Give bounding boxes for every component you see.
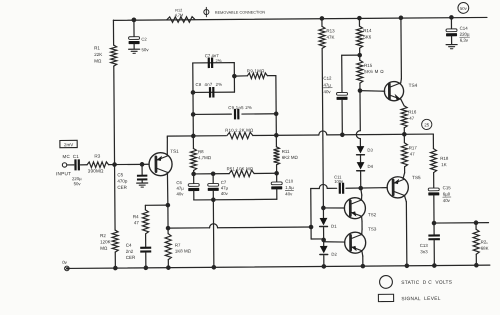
symbol removable connection bbox=[204, 7, 209, 16]
wire mid rail center bbox=[253, 134, 319, 137]
svg-text:R1: R1 bbox=[94, 45, 100, 50]
wire hop over diode column bbox=[319, 131, 327, 135]
svg-text:2n2: 2n2 bbox=[126, 249, 134, 254]
transistor TS1 bbox=[149, 153, 172, 176]
label R14 5K6 bbox=[363, 28, 372, 39]
node caps drop ground junction bbox=[212, 265, 217, 270]
label C15 6u8 40v bbox=[443, 185, 452, 203]
wire C14 to ground bbox=[451, 36, 453, 44]
svg-text:TS1: TS1 bbox=[170, 149, 179, 154]
svg-text:MΩ: MΩ bbox=[94, 58, 102, 63]
wire left bias column middle bbox=[114, 66, 115, 230]
svg-text:R7: R7 bbox=[175, 243, 181, 248]
wire D3 to D4 bbox=[359, 156, 361, 163]
svg-text:R4: R4 bbox=[133, 214, 139, 219]
node R7 top junction bbox=[166, 226, 171, 231]
label C9 1n5 2% bbox=[228, 105, 252, 110]
svg-text:22K: 22K bbox=[94, 52, 102, 57]
svg-text:2mV: 2mV bbox=[64, 142, 73, 147]
capacitor C8 bbox=[209, 87, 215, 98]
node TS2 base junction bbox=[321, 206, 326, 211]
node TS1 base junction bbox=[140, 162, 145, 167]
svg-text:470p: 470p bbox=[117, 179, 128, 184]
wire left bias column lower bbox=[114, 252, 116, 268]
svg-text:6µ8: 6µ8 bbox=[443, 192, 451, 197]
node R8 bottom junction bbox=[191, 172, 196, 177]
resistor R1 bbox=[111, 45, 117, 66]
svg-text:R16: R16 bbox=[408, 109, 417, 114]
resistor R2 bbox=[112, 230, 118, 252]
svg-text:47: 47 bbox=[410, 152, 415, 157]
svg-text:47µ: 47µ bbox=[323, 82, 331, 87]
wire feedback loop top bbox=[193, 62, 234, 64]
label R3 bbox=[94, 154, 100, 159]
resistor R3 bbox=[87, 162, 109, 168]
svg-text:C9 1n5 2%: C9 1n5 2% bbox=[228, 105, 252, 110]
label SIGNAL LEVEL bbox=[401, 296, 440, 302]
label R8 4.7M bbox=[198, 149, 212, 160]
wire diode bias column upper bbox=[359, 91, 361, 131]
wire feedback right rail bbox=[275, 76, 277, 136]
svg-text:D2: D2 bbox=[331, 252, 337, 257]
wire R9 to right rail bbox=[267, 75, 275, 77]
ground below C14 bbox=[446, 45, 457, 49]
label R16 47 bbox=[408, 109, 417, 120]
svg-text:40v: 40v bbox=[221, 191, 229, 196]
wire R9 lead left bbox=[234, 75, 247, 77]
wire R11 bottom stub bbox=[276, 165, 278, 173]
svg-text:50v: 50v bbox=[460, 6, 468, 11]
svg-text:47µ: 47µ bbox=[176, 186, 184, 191]
label R17 47 bbox=[409, 145, 418, 156]
node C4 ground junction bbox=[144, 266, 149, 271]
svg-text:40v: 40v bbox=[285, 191, 293, 196]
label MC C1 bbox=[62, 154, 79, 159]
label C4 2n2 CER bbox=[126, 243, 136, 260]
svg-text:TS5: TS5 bbox=[412, 175, 421, 180]
ground below C2 bbox=[129, 49, 140, 53]
wire TS5 base lead bbox=[346, 187, 387, 190]
label R21 68K bbox=[481, 239, 489, 250]
node R7 ground junction bbox=[166, 265, 171, 270]
capacitor C10 bbox=[271, 173, 282, 199]
wire TS4 collector to rail bbox=[400, 18, 401, 83]
node R9 tap junction bbox=[232, 74, 237, 79]
svg-text:2%: 2% bbox=[216, 58, 222, 63]
wire 173 line left segment bbox=[194, 173, 213, 175]
wire D1 top lead bbox=[322, 208, 324, 218]
label R13 47K bbox=[326, 28, 335, 39]
svg-text:6K2 MΩ: 6K2 MΩ bbox=[282, 155, 299, 160]
svg-text:40v: 40v bbox=[323, 89, 331, 94]
resistor R15 bbox=[357, 60, 363, 83]
wire R21 top stub bbox=[475, 223, 477, 229]
capacitor C15 bbox=[428, 188, 439, 195]
symbol voltage circle 25 bbox=[422, 119, 432, 129]
node C9 left junction bbox=[191, 112, 196, 117]
capacitor C14 bbox=[446, 29, 457, 36]
wire TS5 emitter down bbox=[405, 196, 407, 266]
diode D1 bbox=[320, 218, 328, 227]
svg-text:R9 1MΩ: R9 1MΩ bbox=[247, 68, 265, 73]
wire C12 top lead bbox=[342, 55, 360, 92]
node 2mV signal-level box bbox=[60, 140, 77, 147]
ground below C5 bbox=[137, 183, 148, 187]
wire R4 to C4 bbox=[145, 234, 147, 247]
node feedback left junction bbox=[191, 134, 196, 139]
wire R13 top stub bbox=[321, 18, 323, 26]
label R4 47 bbox=[133, 214, 140, 225]
wire C13 to ground rail bbox=[433, 240, 435, 265]
node D4 TS2 junction bbox=[358, 186, 363, 191]
wire D1 to node bbox=[323, 228, 325, 246]
capacitor C12 bbox=[336, 92, 347, 99]
label TS4 bbox=[409, 83, 418, 88]
resistor R9 bbox=[247, 73, 267, 79]
wire R4 top stub bbox=[144, 205, 146, 209]
wire 173 line to R51 bbox=[213, 173, 229, 175]
svg-text:6,3v: 6,3v bbox=[460, 38, 469, 43]
wire bypass vertical bbox=[310, 189, 312, 239]
svg-text:R2₁: R2₁ bbox=[481, 239, 489, 244]
resistor R51 bbox=[229, 170, 254, 177]
svg-text:CER: CER bbox=[126, 255, 136, 260]
label R1 22K bbox=[94, 45, 102, 63]
wire D4 to TS5 base node bbox=[360, 172, 362, 189]
label C1 value 220u 50v bbox=[72, 176, 82, 186]
svg-text:47µ: 47µ bbox=[221, 185, 229, 190]
transistor TS5 bbox=[387, 177, 408, 198]
node TS4 collector rail junction bbox=[399, 15, 404, 20]
resistor R16 bbox=[401, 106, 407, 128]
wire R51 to R11 bottom bbox=[254, 172, 276, 174]
label R12 4.7M bbox=[175, 9, 184, 18]
svg-text:R51 10K MΩ: R51 10K MΩ bbox=[227, 166, 254, 171]
resistor R14 bbox=[356, 26, 362, 48]
label R51 10K bbox=[227, 166, 254, 171]
svg-text:R17: R17 bbox=[409, 145, 418, 150]
resistor R4 bbox=[142, 210, 148, 234]
svg-text:C7: C7 bbox=[221, 180, 227, 185]
svg-text:25: 25 bbox=[424, 122, 429, 127]
wire C15 to output node bbox=[433, 195, 435, 223]
wire caps bottom bus bbox=[194, 198, 277, 201]
node R16 R17 junction bbox=[402, 132, 407, 137]
node bias divider junction bbox=[112, 162, 117, 167]
svg-text:C10: C10 bbox=[285, 179, 294, 184]
svg-text:68K: 68K bbox=[481, 246, 489, 251]
node R21 top junction bbox=[474, 220, 479, 225]
svg-text:120K: 120K bbox=[100, 239, 111, 244]
svg-text:REMOVABLE CONNECTION: REMOVABLE CONNECTION bbox=[215, 10, 266, 14]
symbol voltage circle 50v bbox=[458, 2, 469, 13]
node ground rail right end bbox=[474, 263, 479, 268]
wire R16 to mid rail bbox=[403, 128, 405, 134]
svg-text:R3: R3 bbox=[94, 154, 100, 159]
label C11 100n bbox=[334, 174, 344, 183]
svg-text:C5: C5 bbox=[117, 172, 123, 177]
wire top supply rail bbox=[113, 17, 486, 20]
wire R13 down to diode column bbox=[322, 48, 323, 207]
terminal INPUT bbox=[62, 163, 66, 167]
wire TS4 emitter to R16 bbox=[401, 99, 404, 106]
capacitor C7b bbox=[208, 174, 219, 200]
wire hop over caps drop bbox=[210, 224, 218, 228]
label D4 bbox=[367, 164, 373, 169]
node TS3 ground junction bbox=[361, 264, 366, 269]
svg-text:D3: D3 bbox=[367, 148, 373, 153]
legend static circle bbox=[380, 275, 393, 288]
diode D3 bbox=[357, 146, 365, 155]
svg-text:D1: D1 bbox=[331, 224, 337, 229]
capacitor C11 bbox=[339, 183, 345, 194]
label TS5 bbox=[412, 175, 421, 180]
node D2 ground junction bbox=[322, 264, 327, 269]
svg-text:1K: 1K bbox=[441, 162, 446, 167]
wire input to C1 bbox=[67, 164, 74, 166]
wire bias node to base node bbox=[115, 163, 142, 165]
wire caps bus drop to ground rail bbox=[212, 200, 215, 267]
label TS1 bbox=[170, 149, 179, 154]
wire TS4 base lead bbox=[360, 89, 385, 92]
wire R17 to TS5 collector bbox=[403, 167, 405, 179]
resistor R17 bbox=[401, 143, 407, 167]
label R2 120K bbox=[100, 233, 111, 251]
resistor R10 bbox=[227, 132, 253, 139]
svg-text:C8 4n7 2%: C8 4n7 2% bbox=[195, 82, 222, 87]
wire TS3 base lead bbox=[324, 241, 345, 244]
svg-text:47: 47 bbox=[409, 116, 414, 121]
svg-text:INPUT: INPUT bbox=[56, 171, 71, 176]
wire R17 top stub bbox=[403, 134, 405, 142]
wire bias column to D3 bbox=[359, 139, 361, 146]
node R11 bottom junction bbox=[274, 171, 279, 176]
svg-text:220µ: 220µ bbox=[460, 32, 470, 37]
label C6 47u 40v bbox=[176, 180, 184, 196]
wire R15 to TS4 base node bbox=[359, 83, 361, 90]
node bypass tap junction bbox=[309, 225, 314, 230]
wire emitter node to R4 bbox=[145, 204, 167, 206]
node TS1 emitter junction bbox=[166, 203, 171, 208]
capacitor C7 bbox=[208, 58, 214, 69]
wire C4 to ground rail bbox=[145, 253, 147, 268]
node R14 R15 C12 junction bbox=[357, 53, 362, 58]
svg-text:C12: C12 bbox=[323, 76, 332, 81]
wire C14 stub bbox=[450, 17, 452, 28]
capacitor C1 bbox=[74, 159, 80, 170]
svg-text:MC C1: MC C1 bbox=[62, 154, 79, 159]
svg-text:5K6 M Ω: 5K6 M Ω bbox=[364, 69, 384, 74]
node loop bottom-left junction bbox=[191, 90, 196, 95]
label R9 1M bbox=[247, 68, 265, 73]
svg-text:D4: D4 bbox=[367, 164, 373, 169]
node rail R14 junction bbox=[357, 16, 362, 21]
wire feedback loop right bbox=[233, 63, 235, 92]
node rail R13 junction bbox=[320, 16, 325, 21]
resistor R18 bbox=[430, 149, 436, 173]
capacitor C2 bbox=[129, 37, 140, 44]
svg-text:R8: R8 bbox=[198, 149, 204, 154]
wire base node to TS1 bbox=[142, 163, 149, 165]
wire R14 to node bbox=[359, 48, 361, 60]
label C7b 47u 40v bbox=[221, 180, 229, 196]
wire bypass bottom bbox=[311, 238, 323, 240]
wire base node to C5 bbox=[141, 164, 143, 174]
label R7 1K8 bbox=[175, 242, 192, 253]
capacitor C5 bbox=[137, 175, 147, 181]
capacitor C6 bbox=[188, 174, 199, 200]
label D3 bbox=[367, 148, 373, 153]
label INPUT bbox=[56, 171, 71, 176]
label C10 1.5u 40v bbox=[285, 179, 294, 197]
label R3 value 390M bbox=[88, 168, 104, 173]
svg-text:CER: CER bbox=[117, 185, 127, 190]
transistor TS2 bbox=[344, 198, 365, 219]
svg-text:MΩ: MΩ bbox=[100, 246, 108, 251]
wire hop of bias column over mid rail bbox=[356, 131, 360, 139]
label TS3 bbox=[368, 227, 377, 232]
node TS5 emitter ground junction bbox=[405, 263, 410, 268]
resistor R8 bbox=[190, 148, 196, 170]
wire TS2 base lead bbox=[323, 207, 344, 209]
svg-text:R12: R12 bbox=[175, 9, 182, 13]
resistor R11 bbox=[273, 147, 279, 165]
label R10 2.2K bbox=[225, 128, 254, 133]
node rail C14 junction bbox=[449, 15, 454, 20]
label C5 470p CER bbox=[117, 172, 128, 190]
label TS2 bbox=[368, 212, 377, 217]
wire R8 to 173 line bbox=[193, 170, 195, 173]
wire TS1 collector up bbox=[166, 136, 168, 156]
label D1 bbox=[331, 224, 337, 229]
wire TS5 base line left bbox=[311, 187, 337, 189]
wire TS3 emitter to ground rail bbox=[362, 251, 363, 267]
wire R18 to C15 bbox=[433, 173, 435, 188]
wire TS2 emitter to TS3 collector bbox=[361, 216, 364, 235]
wire R7 to ground rail bbox=[167, 260, 169, 268]
resistor R21 bbox=[473, 229, 479, 254]
terminal 0v bbox=[65, 266, 70, 271]
svg-text:47K: 47K bbox=[326, 35, 334, 40]
wire C9 line left bbox=[193, 113, 231, 115]
svg-text:R18: R18 bbox=[440, 156, 449, 161]
svg-text:R11: R11 bbox=[282, 149, 290, 154]
wire C1 to R3 bbox=[80, 164, 87, 166]
svg-text:TS3: TS3 bbox=[368, 227, 377, 232]
svg-text:C2: C2 bbox=[141, 37, 147, 42]
node output junction bbox=[432, 221, 437, 226]
svg-text:50v: 50v bbox=[141, 47, 149, 52]
svg-text:3n3: 3n3 bbox=[420, 249, 428, 254]
svg-text:SIGNAL LEVEL: SIGNAL LEVEL bbox=[401, 296, 440, 302]
svg-text:4,7M: 4,7M bbox=[175, 13, 184, 17]
svg-text:100n: 100n bbox=[334, 179, 344, 184]
wire bottom ground rail bbox=[67, 265, 490, 268]
svg-text:R14: R14 bbox=[363, 28, 372, 33]
legend signal rectangle bbox=[378, 294, 393, 301]
resistor R12 bbox=[167, 17, 195, 23]
svg-text:R13: R13 bbox=[326, 28, 335, 33]
node C13 ground junction bbox=[432, 263, 437, 268]
node C12 bottom junction bbox=[340, 132, 345, 137]
svg-text:TS4: TS4 bbox=[409, 83, 418, 88]
wire R8 top stub bbox=[192, 136, 194, 148]
node D1 D2 TS3 junction bbox=[321, 238, 326, 243]
node caps bus junction bbox=[211, 197, 216, 202]
wire R21 to ground rail bbox=[475, 254, 477, 265]
label C7 4n7 bbox=[205, 53, 222, 63]
wire emitter column bbox=[167, 205, 169, 233]
resistor R7 bbox=[165, 234, 171, 260]
wire R11 top stub bbox=[275, 135, 277, 146]
label R11 6K2 bbox=[282, 149, 299, 160]
node C9 right junction bbox=[274, 111, 279, 116]
svg-text:C13: C13 bbox=[420, 243, 429, 248]
svg-text:0v: 0v bbox=[62, 260, 67, 265]
label R15 5K6 M bbox=[364, 63, 384, 74]
wire output line bbox=[434, 222, 488, 224]
svg-text:40v: 40v bbox=[176, 191, 184, 196]
wire hop of TS5 base line bbox=[319, 184, 327, 188]
transistor TS3 bbox=[345, 232, 366, 253]
svg-text:50v: 50v bbox=[74, 181, 82, 186]
wire TS2 collector up bbox=[361, 188, 362, 200]
wire mid rail right bbox=[327, 133, 433, 136]
wire C13 stub bbox=[433, 223, 435, 234]
svg-text:390MΩ: 390MΩ bbox=[88, 168, 104, 173]
node rail R12 junction bbox=[132, 18, 137, 23]
wire C2 stub bbox=[133, 20, 135, 37]
wire C2 to ground bbox=[133, 44, 135, 49]
label R18 1K bbox=[440, 156, 449, 167]
resistor R13 bbox=[319, 26, 325, 48]
wire R14 top stub bbox=[358, 18, 360, 26]
wire C5 to ground bbox=[141, 180, 143, 182]
node R2 ground junction bbox=[113, 266, 118, 271]
label STATIC DC VOLTS bbox=[401, 280, 453, 286]
wire feedback loop bottom bbox=[193, 91, 234, 93]
label C2 value bbox=[141, 37, 149, 53]
label D2 bbox=[331, 252, 337, 257]
svg-text:R2: R2 bbox=[100, 233, 106, 238]
transistor TS4 bbox=[384, 81, 403, 100]
wire D2 to ground rail bbox=[323, 256, 325, 267]
wire left bias column upper bbox=[112, 20, 114, 45]
svg-text:C14: C14 bbox=[460, 26, 469, 31]
label C13 3n3 bbox=[420, 243, 429, 254]
capacitor C13 bbox=[428, 234, 440, 240]
svg-text:4,7MΩ: 4,7MΩ bbox=[198, 155, 212, 160]
svg-text:R15: R15 bbox=[364, 63, 373, 68]
capacitor C9 bbox=[234, 109, 240, 120]
svg-text:R10 2,2K MΩ: R10 2,2K MΩ bbox=[225, 128, 254, 133]
diode D2 bbox=[320, 246, 328, 255]
svg-text:1K8 MΩ: 1K8 MΩ bbox=[175, 248, 192, 253]
svg-text:C15: C15 bbox=[443, 185, 452, 190]
capacitor C4 bbox=[140, 247, 151, 253]
wire C9 line right bbox=[242, 113, 276, 115]
svg-text:TS2: TS2 bbox=[368, 212, 377, 217]
wire C12 to mid rail bbox=[341, 100, 343, 135]
svg-text:C6: C6 bbox=[176, 180, 182, 185]
svg-text:40v: 40v bbox=[443, 198, 451, 203]
wire feedback return left bbox=[168, 227, 209, 229]
label REMOVABLE CONNECTION bbox=[215, 10, 266, 14]
svg-text:C4: C4 bbox=[126, 243, 132, 248]
label C14 220u 6.3v bbox=[460, 26, 470, 43]
wire feedback left rail bbox=[192, 63, 195, 136]
node C2 tap junction bbox=[132, 18, 137, 23]
